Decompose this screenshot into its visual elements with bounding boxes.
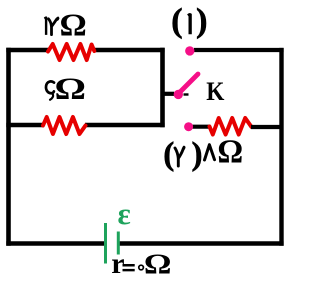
switch contact stub right of pivot — [184, 93, 189, 95]
label r = 0 ohm : equals — [123, 264, 135, 267]
svg-text:r: r — [111, 247, 124, 280]
wire resistor R3 to right vertical — [251, 125, 283, 129]
svg-text:): ) — [192, 137, 203, 173]
node 2 dot — [184, 122, 193, 131]
svg-text:(: ( — [171, 3, 182, 40]
svg-text:Ω: Ω — [60, 8, 87, 43]
wire middle-left segment — [6, 123, 43, 128]
svg-text:K: K — [206, 78, 225, 107]
switch K blade — [180, 74, 199, 93]
label r = 0 ohm : persian zero — [139, 265, 144, 270]
wire middle-right segment to junction — [85, 123, 165, 128]
svg-text:(: ( — [163, 137, 174, 173]
wire bottom-right segment — [120, 241, 284, 246]
wire node2 to resistor R3 — [193, 125, 210, 129]
resistor R1 12ohm zigzag — [48, 44, 94, 60]
svg-text:Ω: Ω — [217, 134, 243, 171]
label node (1) : persian digit 1 — [187, 13, 192, 34]
wire junction vertical (right of parallel section) — [160, 48, 165, 127]
node 1 dot — [185, 46, 194, 55]
label 6 ohm : persian digit 6 — [46, 81, 54, 93]
label 12 ohm : persian digit 1 — [44, 16, 48, 35]
wire top-left segment — [6, 48, 48, 53]
wire top-right segment — [194, 48, 284, 52]
label node (2) : persian digit 2 — [175, 147, 184, 166]
label 8 ohm : persian digit 8 — [205, 145, 215, 160]
wire switch stub — [161, 92, 175, 96]
battery long plate — [104, 223, 107, 264]
resistor R3 8ohm zigzag — [210, 118, 252, 135]
wire top-middle segment after 12ohm resistor — [94, 48, 165, 53]
resistor R2 6ohm zigzag — [43, 117, 86, 134]
svg-text:): ) — [196, 3, 207, 40]
switch pivot dot — [174, 90, 183, 99]
svg-text:Ω: Ω — [55, 72, 87, 106]
svg-text:ε: ε — [118, 196, 131, 231]
wire left vertical — [6, 48, 11, 246]
wire right vertical — [279, 48, 283, 246]
label 12 ohm : persian digit 2 — [49, 18, 58, 34]
wire bottom-left segment — [6, 241, 104, 246]
battery short plate — [117, 232, 120, 255]
svg-text:Ω: Ω — [144, 248, 172, 280]
